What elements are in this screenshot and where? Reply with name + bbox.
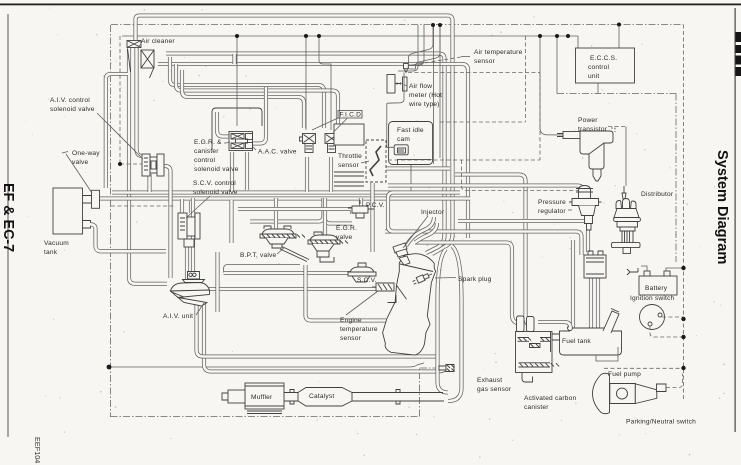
svg-text:gas sensor: gas sensor: [477, 386, 512, 393]
svg-text:E.G.R. &: E.G.R. &: [194, 139, 222, 146]
label AIV unit: [163, 303, 204, 320]
hose: BPT line to SCV valve: [218, 252, 353, 312]
svg-text:Fast idle: Fast idle: [397, 127, 424, 134]
svg-text:System Diagram: System Diagram: [714, 150, 730, 264]
label FICD: [312, 111, 363, 133]
A.I.V. unit: [171, 272, 210, 307]
frame left dash-dot vertical: [110, 25, 112, 417]
svg-text:Spark plug: Spark plug: [458, 276, 492, 283]
throttle sensor dashed box: [366, 140, 386, 182]
engine block: [383, 254, 436, 355]
harness right vertical (dashed): [683, 25, 685, 401]
hose: air cleaner duct down: [129, 48, 167, 284]
svg-text:Catalyst: Catalyst: [309, 393, 334, 400]
ignition switch: [640, 305, 684, 338]
exhaust pipe muffler to catalyst: [284, 390, 298, 405]
svg-text:Power: Power: [578, 117, 598, 124]
label air temperature sensor: [409, 49, 523, 66]
svg-text:temperature: temperature: [340, 326, 378, 333]
svg-text:E.C.C.S.: E.C.C.S.: [590, 55, 617, 62]
fuel pump wires: [604, 368, 684, 387]
svg-text:Throttle: Throttle: [338, 153, 362, 160]
svg-text:Injector: Injector: [421, 209, 445, 216]
hose: inner top run to intake: [166, 54, 445, 254]
svg-text:A.A.C. valve: A.A.C. valve: [258, 149, 297, 156]
pressure regulator: [569, 186, 602, 231]
hose: air cleaner to intake top loop: [136, 16, 453, 255]
svg-text:valve: valve: [336, 234, 353, 241]
hose: intake to pressure reg upper: [455, 175, 530, 331]
exhaust downpipe: [352, 390, 444, 405]
hose: EGR loop line: [250, 198, 352, 224]
svg-text:F.I.C.D.: F.I.C.D.: [340, 112, 364, 119]
svg-text:solenoid valve: solenoid valve: [194, 166, 239, 173]
right-edge clipped bold text: [736, 32, 741, 76]
hose: canister to fuel tank breather: [538, 322, 571, 328]
air cleaner bowtie: [127, 41, 141, 48]
harness line 2: [122, 35, 568, 37]
label vacuum tank: [44, 240, 69, 256]
label distributor: [641, 191, 674, 198]
one-way valve: [92, 190, 100, 208]
svg-text:unit: unit: [588, 73, 599, 80]
label EGR & canister control solenoid valve: [194, 139, 239, 173]
wire AIV solenoid dashed: [111, 36, 176, 206]
svg-text:sensor: sensor: [340, 335, 362, 342]
distributor: [612, 186, 641, 254]
hose: fuel filter to tank: [591, 278, 598, 328]
throttle lever linkage: [370, 146, 381, 176]
svg-text:A.I.V. unit: A.I.V. unit: [163, 313, 193, 320]
label exhaust gas sensor: [477, 377, 512, 393]
hose: inner exhaust wrap: [438, 249, 449, 393]
air cleaner X-box element: [141, 50, 154, 68]
wire ECCS entry from top harness: [618, 25, 620, 49]
svg-text:wire type): wire type): [408, 101, 440, 108]
ignition key symbol: [627, 268, 638, 275]
svg-text:solenoid valve: solenoid valve: [193, 189, 238, 196]
svg-text:canister: canister: [194, 148, 219, 155]
engine temperature sensor: [372, 283, 394, 291]
svg-text:tank: tank: [44, 249, 58, 256]
label spark plug: [435, 276, 492, 283]
svg-text:Parking/Neutral switch: Parking/Neutral switch: [626, 419, 696, 426]
hose: parallel long run: [112, 190, 460, 194]
hose: feeds into AAC cluster: [217, 87, 266, 144]
svg-text:Fuel pump: Fuel pump: [608, 371, 641, 378]
wire FICD drops: [306, 36, 331, 130]
harness line top (dash-dot): [111, 24, 683, 26]
label fast idle cam: [397, 127, 424, 143]
svg-text:regulator: regulator: [538, 208, 566, 215]
svg-text:Pressure: Pressure: [538, 199, 566, 206]
S.C.V. on intake: [348, 263, 376, 282]
harness ECCS lower dashed: [557, 94, 676, 263]
F.I.C.D. solenoid 2: [325, 134, 342, 153]
hose: AIV unit to exhaust long drop: [204, 303, 446, 372]
wire EGR solenoid drop: [236, 36, 238, 126]
hose: AIV top stem riser: [191, 198, 195, 271]
hose: SCV solenoid down and right to SCV: [187, 244, 382, 289]
wire throttle sensor dash vertical: [388, 36, 578, 191]
wire ECCS riser 1: [556, 36, 558, 94]
label engine temperature sensor: [340, 291, 378, 342]
exhaust gas sensor: [439, 365, 455, 372]
injector: [393, 243, 410, 265]
svg-text:B.P.T. valve: B.P.T. valve: [240, 252, 276, 259]
hose: EGR drain to engine loop: [306, 265, 387, 321]
hose: intake runner curve: [406, 217, 437, 246]
label ignition switch: [630, 295, 675, 302]
svg-text:control: control: [194, 157, 216, 164]
fuel filter: [584, 251, 606, 278]
label air flow meter: [404, 83, 443, 108]
svg-text:Activated carbon: Activated carbon: [524, 395, 576, 402]
hose: vacuum tank lower outlet to AIV: [90, 224, 166, 251]
hose: BPT riser: [274, 198, 278, 230]
svg-text:valve: valve: [72, 159, 89, 166]
svg-text:Exhaust: Exhaust: [477, 377, 502, 384]
activated carbon canister: [516, 316, 560, 382]
wire ECCS entry 2: [568, 36, 578, 48]
hose: nested run 3: [182, 70, 304, 128]
air flow meter: [387, 75, 407, 94]
hose: PCV riser: [361, 183, 373, 252]
svg-text:Battery: Battery: [645, 285, 668, 292]
E.C.C.S. control unit: [576, 48, 635, 83]
AAC/EGR solenoid bowtie pair: [229, 132, 253, 151]
E.G.R. valve: [308, 232, 348, 262]
exhaust sensor wire horizontal: [109, 363, 424, 367]
svg-text:Muffler: Muffler: [251, 394, 273, 401]
svg-text:S.C.V.: S.C.V.: [357, 277, 377, 284]
label EGR valve: [336, 225, 357, 241]
svg-text:Air flow: Air flow: [409, 83, 432, 90]
F.I.C.D. solenoid 1: [300, 134, 316, 153]
battery: [639, 271, 677, 295]
svg-text:Fuel tank: Fuel tank: [562, 338, 591, 345]
svg-text:meter (Hot: meter (Hot: [409, 92, 442, 99]
hose: nested run 2 to solenoid alley: [176, 64, 338, 128]
hose: to pressure regulator: [388, 186, 584, 200]
svg-text:A.I.V. control: A.I.V. control: [50, 97, 90, 104]
B.P.T. valve: [260, 226, 305, 248]
svg-text:control: control: [588, 64, 610, 71]
E.G.R. & canister control solenoid assembly box: [212, 108, 262, 150]
label activated carbon canister: [524, 395, 576, 411]
svg-text:Vacuum: Vacuum: [44, 240, 69, 247]
hose: fuel return run: [415, 243, 519, 330]
hose: throttle lines mid: [238, 209, 352, 214]
label injector: [403, 209, 445, 248]
svg-text:Ignition switch: Ignition switch: [630, 295, 675, 302]
svg-text:transistor: transistor: [578, 126, 608, 133]
label SCV on engine: [357, 277, 377, 284]
catalyst: [298, 388, 352, 407]
hose: fuel rail verticals at engine: [388, 193, 460, 232]
fuel pump: [593, 373, 667, 414]
svg-text:Distributor: Distributor: [641, 191, 674, 198]
label BPT valve: [240, 248, 284, 259]
A.I.V. control solenoid valve: [142, 154, 164, 176]
label fuel pump: [608, 371, 641, 378]
frame bottom dash-dot to exhaust sensor: [111, 368, 440, 417]
svg-text:EEF104: EEF104: [33, 437, 42, 463]
svg-text:Engine: Engine: [340, 317, 362, 324]
hose: duct to vacuum tank branch: [106, 74, 128, 188]
muffler: [222, 383, 284, 414]
svg-text:One-way: One-way: [72, 150, 100, 157]
air cleaner housing step: [128, 49, 235, 78]
hose: vacuum tank long run right: [99, 196, 470, 200]
label parking/neutral switch: [626, 419, 696, 426]
hose: nested run to FICD: [170, 57, 324, 128]
hose: AIV second pipe: [197, 303, 438, 357]
svg-text:sensor: sensor: [474, 58, 496, 65]
svg-text:canister: canister: [524, 404, 549, 411]
label power transistor: [578, 117, 615, 133]
hose: outer exhaust wrap: [448, 246, 462, 401]
label pressure regulator: [538, 199, 572, 215]
label AIV control solenoid valve: [50, 97, 143, 159]
svg-text:EF & EC-7: EF & EC-7: [0, 183, 16, 252]
fuel tank: [552, 309, 622, 362]
svg-text:Air cleaner: Air cleaner: [141, 38, 175, 45]
svg-text:Air temperature: Air temperature: [474, 49, 523, 56]
label air cleaner: [137, 38, 175, 48]
S.C.V. control solenoid valve: [178, 213, 200, 247]
label throttle sensor: [338, 153, 369, 169]
hose: AIV solenoid to SCV solenoid: [150, 166, 192, 278]
svg-text:solenoid valve: solenoid valve: [50, 106, 95, 113]
air temperature sensor element: [387, 64, 409, 148]
svg-text:P.C.V.: P.C.V.: [366, 202, 385, 209]
hose: fuel rail line: [385, 221, 586, 255]
spark plug: [412, 271, 434, 285]
B.P.T. to E.G.R. pipe: [224, 247, 310, 274]
label PCV: [366, 202, 385, 209]
hose: second left run: [158, 64, 468, 238]
hose: pressure reg to fuel filter: [573, 230, 588, 328]
power transistor: [557, 131, 613, 181]
label AAC valve: [253, 147, 297, 156]
svg-text:cam: cam: [397, 136, 410, 143]
wires to air flow meter: [398, 25, 424, 71]
P.C.V. valve: [348, 200, 374, 218]
right page rule: [735, 8, 736, 432]
throttle chamber blocks: [334, 124, 364, 186]
hose: AAC cluster down: [232, 152, 248, 243]
hose: EGR riser: [323, 198, 327, 236]
left page rule: [8, 14, 9, 437]
battery wires: [641, 266, 684, 271]
wire power transistor drop: [540, 36, 563, 135]
svg-text:E.G.R.: E.G.R.: [336, 225, 357, 232]
svg-text:sensor: sensor: [338, 162, 360, 169]
top page rule: [0, 4, 741, 6]
wire ECCS bottom: [597, 83, 599, 94]
label SCV control solenoid valve: [186, 180, 238, 218]
wires from harness to air temp sensor: [409, 25, 441, 164]
hose: FICD drops: [307, 157, 331, 192]
fast idle cam box: [389, 122, 433, 165]
wire transistor to distributor: [608, 127, 626, 187]
svg-text:S.C.V. control: S.C.V. control: [193, 180, 236, 187]
label one-way valve: [62, 150, 100, 193]
hose: throttle to injector area: [386, 166, 450, 170]
vacuum tank: [53, 188, 92, 234]
wire: fast idle cam down: [410, 164, 412, 192]
